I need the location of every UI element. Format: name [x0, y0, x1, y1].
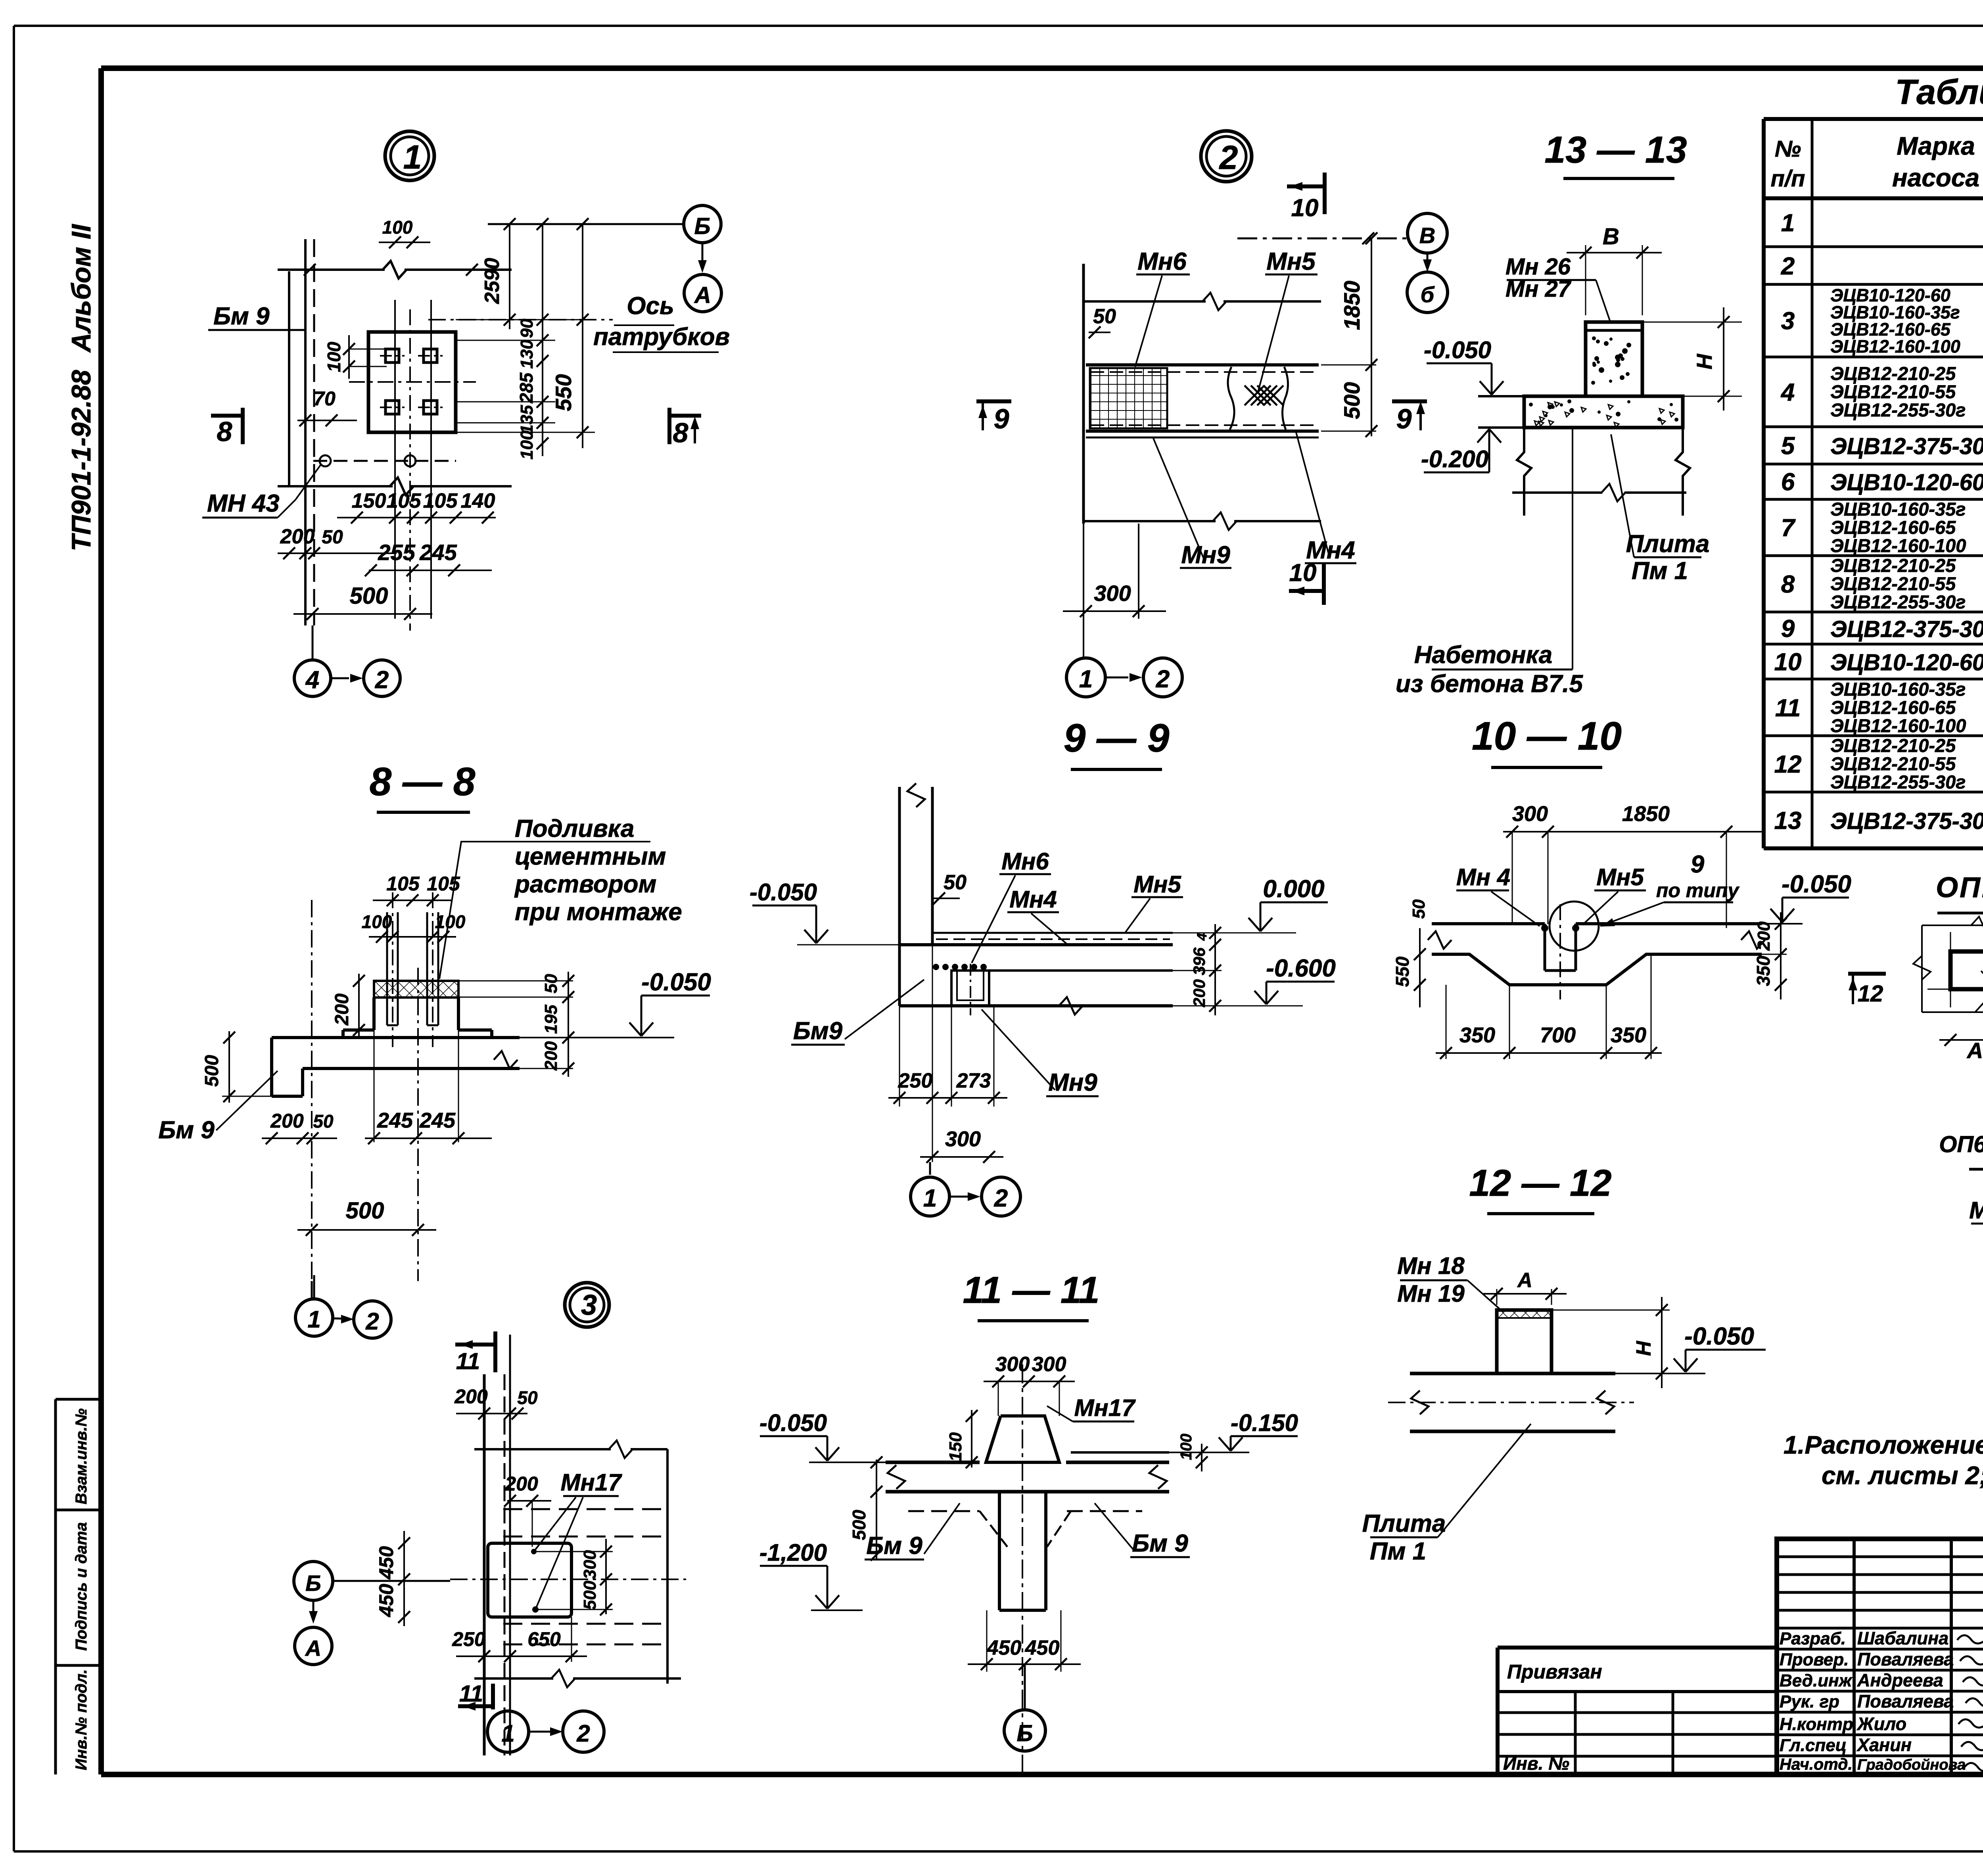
svg-text:11: 11	[456, 1348, 480, 1374]
svg-text:-1,200: -1,200	[759, 1539, 827, 1566]
svg-text:3: 3	[1781, 307, 1795, 335]
svg-text:2: 2	[365, 1308, 379, 1335]
svg-text:12 — 12: 12 — 12	[1469, 1162, 1611, 1204]
svg-text:Плита: Плита	[1362, 1510, 1446, 1537]
svg-text:10: 10	[1291, 194, 1319, 222]
svg-text:из бетона В7.5: из бетона В7.5	[1396, 670, 1583, 698]
svg-text:500: 500	[580, 1581, 600, 1610]
svg-text:Подливка: Подливка	[515, 815, 634, 842]
svg-text:200: 200	[504, 1473, 538, 1495]
svg-text:12: 12	[1858, 981, 1883, 1007]
svg-text:Н: Н	[1693, 354, 1716, 370]
svg-text:Плита: Плита	[1626, 530, 1710, 558]
svg-text:9 — 9: 9 — 9	[1064, 716, 1170, 760]
svg-text:8: 8	[217, 416, 232, 447]
svg-text:Альбом II: Альбом II	[66, 223, 96, 353]
svg-text:ЭЦВ12-255-30г: ЭЦВ12-255-30г	[1830, 591, 1966, 612]
svg-text:Поваляева: Поваляева	[1857, 1649, 1954, 1669]
svg-text:10 — 10: 10 — 10	[1472, 714, 1622, 758]
svg-text:Мн9: Мн9	[1181, 541, 1230, 569]
svg-text:В: В	[1603, 224, 1619, 249]
svg-text:100: 100	[324, 341, 344, 372]
svg-text:Н.контр: Н.контр	[1780, 1715, 1853, 1734]
svg-text:-0.050: -0.050	[759, 1410, 827, 1436]
svg-text:-0.200: -0.200	[1421, 446, 1488, 472]
svg-text:200: 200	[541, 1041, 561, 1071]
svg-text:Ханин: Ханин	[1856, 1735, 1912, 1755]
svg-text:Пм 1: Пм 1	[1370, 1538, 1426, 1565]
svg-text:9: 9	[994, 403, 1009, 434]
svg-text:1: 1	[403, 138, 422, 176]
svg-text:50: 50	[541, 974, 561, 993]
svg-text:350: 350	[1753, 955, 1774, 986]
svg-text:9: 9	[1781, 615, 1795, 643]
svg-text:255: 255	[378, 540, 415, 565]
svg-text:ЭЦВ12-160-100: ЭЦВ12-160-100	[1830, 336, 1960, 357]
svg-text:13: 13	[1774, 807, 1802, 834]
svg-text:7: 7	[1781, 514, 1796, 542]
svg-text:300: 300	[1512, 802, 1548, 826]
svg-text:ЭЦВ12-375-30г: ЭЦВ12-375-30г	[1830, 616, 1983, 642]
svg-text:Рук. гр: Рук. гр	[1780, 1692, 1839, 1711]
svg-text:Бм 9: Бм 9	[866, 1532, 922, 1559]
svg-text:450: 450	[987, 1636, 1022, 1659]
svg-text:-0.050: -0.050	[641, 969, 711, 996]
svg-text:-0.150: -0.150	[1231, 1410, 1298, 1436]
svg-text:А: А	[694, 282, 711, 308]
svg-text:250: 250	[452, 1628, 485, 1650]
svg-text:300: 300	[1094, 581, 1131, 606]
svg-text:Взам.инв.№: Взам.инв.№	[73, 1408, 90, 1504]
svg-text:Инв.№ подл.: Инв.№ подл.	[73, 1669, 90, 1770]
svg-text:200: 200	[454, 1385, 488, 1408]
svg-text:500: 500	[201, 1055, 222, 1087]
svg-text:Мн9: Мн9	[1048, 1069, 1097, 1096]
svg-text:50: 50	[313, 1111, 334, 1132]
svg-text:200: 200	[332, 994, 353, 1026]
svg-text:50: 50	[517, 1387, 538, 1408]
svg-text:1: 1	[923, 1185, 937, 1212]
svg-text:Гл.спец: Гл.спец	[1780, 1736, 1847, 1755]
svg-text:1: 1	[1079, 666, 1093, 693]
svg-text:Жило: Жило	[1856, 1714, 1906, 1734]
svg-text:-0.050: -0.050	[750, 879, 817, 905]
svg-text:105: 105	[427, 873, 460, 895]
svg-text:Бм9: Бм9	[793, 1017, 843, 1045]
svg-text:Марка: Марка	[1897, 132, 1975, 160]
svg-text:ОП1;ОП2: ОП1;ОП2	[1936, 872, 1983, 903]
svg-text:12: 12	[1774, 751, 1802, 778]
svg-text:3: 3	[581, 1289, 597, 1321]
svg-text:Провер.: Провер.	[1780, 1650, 1849, 1669]
svg-text:Градобойнова: Градобойнова	[1857, 1757, 1966, 1773]
svg-text:8: 8	[673, 417, 688, 448]
svg-text:2: 2	[375, 666, 389, 694]
svg-text:50: 50	[322, 527, 343, 548]
svg-text:2: 2	[1781, 253, 1795, 280]
svg-text:300: 300	[945, 1127, 981, 1151]
svg-text:4: 4	[1195, 933, 1210, 941]
svg-text:245: 245	[419, 540, 457, 565]
svg-text:п/п: п/п	[1771, 166, 1805, 192]
svg-text:273: 273	[956, 1069, 991, 1092]
svg-text:300: 300	[995, 1353, 1030, 1376]
svg-text:8 — 8: 8 — 8	[370, 760, 476, 804]
svg-text:Мн 26: Мн 26	[1969, 1197, 1983, 1224]
svg-text:200: 200	[1190, 979, 1208, 1007]
svg-text:50: 50	[1093, 305, 1116, 328]
svg-text:Мн 19: Мн 19	[1397, 1280, 1465, 1307]
svg-text:500: 500	[350, 583, 388, 609]
svg-text:90: 90	[517, 318, 537, 338]
svg-text:450: 450	[1025, 1636, 1060, 1659]
svg-text:по типу: по типу	[1656, 879, 1740, 902]
svg-text:200: 200	[280, 525, 315, 548]
svg-text:Ось: Ось	[627, 292, 674, 320]
svg-text:Поваляева: Поваляева	[1857, 1691, 1954, 1711]
svg-text:Мн4: Мн4	[1009, 886, 1057, 913]
svg-text:2590: 2590	[481, 258, 504, 304]
svg-text:1: 1	[307, 1306, 320, 1333]
svg-text:11: 11	[459, 1681, 483, 1707]
svg-text:4: 4	[305, 666, 319, 694]
svg-text:0.000: 0.000	[1263, 875, 1324, 903]
svg-text:Разраб.: Разраб.	[1780, 1629, 1846, 1648]
svg-text:350: 350	[1459, 1023, 1495, 1047]
svg-text:1: 1	[1781, 209, 1795, 237]
svg-text:Инв. №: Инв. №	[1503, 1753, 1569, 1774]
svg-text:300: 300	[580, 1550, 600, 1579]
svg-text:Мн 4: Мн 4	[1456, 864, 1510, 890]
svg-text:13 — 13: 13 — 13	[1544, 129, 1687, 171]
svg-text:100: 100	[517, 430, 537, 460]
svg-text:ЭЦВ10-120-60: ЭЦВ10-120-60	[1830, 650, 1983, 675]
svg-text:70: 70	[313, 387, 336, 410]
svg-text:450: 450	[375, 1584, 397, 1617]
svg-text:300: 300	[1032, 1353, 1066, 1376]
svg-text:650: 650	[527, 1628, 561, 1650]
svg-text:Мн17: Мн17	[561, 1469, 623, 1496]
svg-text:150: 150	[946, 1432, 965, 1462]
svg-text:Мн6: Мн6	[1001, 848, 1049, 875]
svg-text:105: 105	[423, 489, 458, 512]
svg-text:10: 10	[1289, 559, 1317, 587]
svg-text:150: 150	[352, 489, 386, 512]
svg-text:ЭЦВ12-255-30г: ЭЦВ12-255-30г	[1830, 771, 1966, 792]
svg-text:9: 9	[1691, 851, 1705, 878]
svg-text:-0.050: -0.050	[1684, 1323, 1754, 1350]
svg-text:-0.050: -0.050	[1424, 337, 1491, 363]
svg-text:100: 100	[1178, 1434, 1195, 1460]
svg-text:Мн6: Мн6	[1137, 248, 1187, 275]
svg-text:250: 250	[898, 1069, 933, 1092]
svg-text:11: 11	[1775, 694, 1801, 722]
svg-text:Мн5: Мн5	[1596, 864, 1644, 890]
svg-text:ТП901-1-92.88: ТП901-1-92.88	[66, 370, 96, 551]
svg-text:1850: 1850	[1339, 281, 1364, 330]
svg-text:см. листы 2;7.: см. листы 2;7.	[1822, 1461, 1983, 1490]
svg-text:Н: Н	[1632, 1341, 1655, 1356]
svg-text:раствором: раствором	[514, 871, 656, 898]
svg-text:В: В	[1419, 223, 1435, 248]
svg-text:Мн17: Мн17	[1074, 1395, 1136, 1421]
svg-text:Б: Б	[305, 1571, 321, 1596]
svg-text:ЭЦВ12-375-30г: ЭЦВ12-375-30г	[1830, 808, 1983, 834]
svg-text:105: 105	[386, 873, 420, 895]
svg-text:140: 140	[461, 489, 495, 512]
svg-text:ЭЦВ12-375-30г.: ЭЦВ12-375-30г.	[1830, 434, 1983, 459]
svg-text:11 — 11: 11 — 11	[963, 1269, 1099, 1311]
svg-text:Набетонка: Набетонка	[1414, 641, 1552, 669]
svg-text:насоса: насоса	[1892, 163, 1979, 192]
svg-text:А: А	[1966, 1038, 1983, 1063]
svg-text:50: 50	[944, 871, 967, 894]
svg-text:Пм 1: Пм 1	[1632, 557, 1688, 585]
svg-text:цементным: цементным	[515, 843, 666, 870]
svg-text:ОП6; ОП7; ОП8; ОП9; ОП10; ОП11: ОП6; ОП7; ОП8; ОП9; ОП10; ОП11; ОП12; ОП…	[1939, 1132, 1983, 1157]
svg-text:6: 6	[1781, 468, 1795, 496]
svg-text:100: 100	[382, 217, 413, 238]
svg-text:245: 245	[419, 1109, 456, 1132]
svg-text:Мн5: Мн5	[1133, 871, 1181, 898]
svg-text:патрубков: патрубков	[593, 323, 730, 351]
svg-text:ЭЦВ10-120-60: ЭЦВ10-120-60	[1830, 470, 1983, 495]
svg-text:500: 500	[346, 1198, 384, 1224]
svg-text:10: 10	[1774, 648, 1802, 676]
svg-text:1: 1	[501, 1720, 514, 1747]
svg-text:-0.600: -0.600	[1266, 955, 1336, 982]
svg-text:100: 100	[435, 911, 466, 932]
svg-text:700: 700	[1540, 1023, 1576, 1047]
svg-text:245: 245	[377, 1109, 413, 1132]
svg-text:ЭЦВ12-160-100: ЭЦВ12-160-100	[1830, 715, 1966, 736]
svg-text:Вед.инж: Вед.инж	[1780, 1671, 1853, 1690]
svg-text:ЭЦВ12-255-30г: ЭЦВ12-255-30г	[1830, 399, 1966, 420]
svg-text:Таблица: Таблица	[1895, 72, 1983, 111]
svg-text:№: №	[1775, 136, 1801, 162]
svg-text:А: А	[305, 1636, 321, 1661]
svg-text:Мн5: Мн5	[1266, 248, 1316, 275]
svg-text:1.Расположение и привязку о: 1.Расположение и привязку опорных подуше…	[1784, 1431, 1983, 1459]
svg-text:2: 2	[994, 1185, 1008, 1212]
svg-text:1850: 1850	[1622, 802, 1670, 826]
svg-text:Б: Б	[1016, 1721, 1033, 1746]
svg-text:135: 135	[517, 405, 537, 434]
svg-text:9: 9	[1396, 403, 1412, 434]
svg-text:200: 200	[1754, 921, 1774, 951]
svg-text:8: 8	[1781, 571, 1795, 598]
svg-text:МН 43: МН 43	[207, 490, 280, 517]
svg-text:Нач.отд.: Нач.отд.	[1780, 1755, 1853, 1773]
svg-text:-0.050: -0.050	[1782, 871, 1851, 898]
svg-text:Б: Б	[694, 213, 710, 239]
svg-text:при монтаже: при монтаже	[515, 898, 682, 926]
svg-text:Бм 9: Бм 9	[213, 303, 270, 330]
svg-text:б: б	[1421, 282, 1435, 307]
svg-text:4: 4	[1780, 379, 1795, 406]
svg-text:50: 50	[1409, 899, 1429, 919]
svg-text:Привязан: Привязан	[1507, 1661, 1602, 1683]
svg-text:450: 450	[375, 1546, 397, 1580]
svg-text:105: 105	[387, 489, 422, 512]
svg-text:Бм 9: Бм 9	[1132, 1530, 1188, 1557]
svg-text:2: 2	[1156, 666, 1170, 693]
svg-text:ЭЦВ12-160-100: ЭЦВ12-160-100	[1830, 535, 1966, 556]
svg-text:5: 5	[1781, 432, 1795, 460]
svg-text:2: 2	[576, 1720, 590, 1747]
svg-text:Шабалина: Шабалина	[1857, 1628, 1948, 1648]
svg-text:500: 500	[1339, 382, 1364, 419]
svg-text:350: 350	[1611, 1023, 1646, 1047]
svg-text:195: 195	[541, 1005, 561, 1034]
svg-text:2: 2	[1219, 139, 1238, 176]
svg-text:А: А	[1517, 1269, 1532, 1292]
svg-text:Мн 18: Мн 18	[1397, 1253, 1465, 1279]
svg-text:130: 130	[517, 340, 537, 369]
svg-text:550: 550	[1392, 956, 1413, 987]
svg-text:Андреева: Андреева	[1857, 1670, 1943, 1690]
svg-text:100: 100	[362, 911, 392, 932]
svg-text:285: 285	[516, 372, 537, 403]
svg-text:Бм 9: Бм 9	[158, 1116, 215, 1144]
svg-text:200: 200	[270, 1110, 304, 1132]
svg-text:550: 550	[551, 374, 576, 411]
svg-text:Подпись и дата: Подпись и дата	[73, 1522, 90, 1651]
